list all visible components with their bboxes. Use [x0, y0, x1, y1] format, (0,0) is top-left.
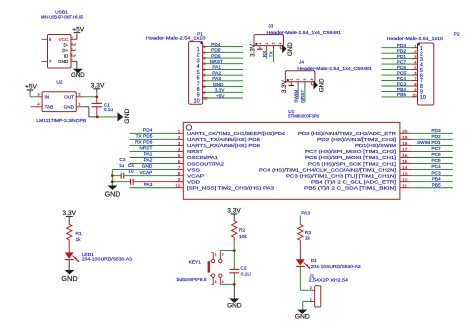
- svg-text:2: 2: [414, 50, 416, 54]
- svg-text:VCC: VCC: [59, 37, 69, 42]
- svg-text:PC5: PC5: [431, 158, 441, 164]
- header P1 value: [146, 35, 206, 41]
- C1 labels: [104, 102, 114, 113]
- wire J4 pin2: [297, 86, 299, 99]
- svg-text:UART1_RX/AIN6/(HS) PD6: UART1_RX/AIN6/(HS) PD6: [187, 143, 260, 149]
- LED D1: [296, 259, 310, 268]
- svg-text:204-10SURD/S530-A3: 204-10SURD/S530-A3: [311, 264, 361, 270]
- svg-text:3: 3: [37, 92, 39, 97]
- svg-text:1: 1: [203, 45, 205, 49]
- svg-text:4: 4: [222, 280, 224, 284]
- net label PA3 (top): [301, 210, 310, 216]
- J3 pin 4 stub: [280, 46, 282, 49]
- svg-text:1: 1: [289, 78, 293, 80]
- header P2 reference: [454, 32, 460, 38]
- svg-text:4: 4: [203, 62, 205, 66]
- svg-text:R1: R1: [76, 231, 82, 237]
- wire U2 GND to rail: [83, 107, 97, 117]
- LED LED1: [65, 252, 79, 261]
- svg-text:15: 15: [402, 159, 408, 164]
- svg-text:C4: C4: [128, 163, 134, 169]
- svg-text:PC6 (HS)/SPI_MOSI [TIM1_CH1]: PC6 (HS)/SPI_MOSI [TIM1_CH1]: [305, 155, 397, 161]
- svg-text:3: 3: [414, 55, 416, 59]
- svg-text:C2: C2: [240, 266, 246, 272]
- svg-text:PB5: PB5: [397, 92, 406, 98]
- svg-text:GND: GND: [61, 274, 77, 283]
- svg-text:[SPI_NSS] TIM2_CH3/(HS) PA3: [SPI_NSS] TIM2_CH3/(HS) PA3: [187, 185, 274, 191]
- svg-text:1: 1: [310, 298, 312, 302]
- svg-text:PA3: PA3: [212, 76, 221, 82]
- header P2 body: [418, 43, 434, 105]
- svg-text:9: 9: [203, 91, 205, 95]
- svg-text:U2: U2: [56, 80, 62, 86]
- power flag 3.3V (J3): [249, 43, 262, 57]
- mcu U1 body: [183, 122, 400, 199]
- svg-text:7: 7: [414, 77, 416, 81]
- svg-text:3.3V: 3.3V: [227, 208, 241, 215]
- svg-text:GND: GND: [58, 59, 69, 64]
- junction C2 bottom: [233, 283, 236, 286]
- junction node 3.3V: [95, 95, 98, 98]
- svg-text:J3: J3: [268, 23, 273, 29]
- capacitor C4: [112, 179, 183, 185]
- U2 pin 4 (TAB) stub: [31, 102, 42, 107]
- U2 pin 3 stub: [36, 92, 42, 97]
- svg-text:18: 18: [402, 141, 408, 146]
- svg-text:Header-Male-2.54_1x10: Header-Male-2.54_1x10: [146, 35, 206, 41]
- J4 pin 3 stub: [304, 82, 306, 86]
- U2 pin 2 stub: [76, 92, 83, 97]
- svg-text:20: 20: [402, 129, 408, 134]
- J1 pin 1 stub: [310, 298, 315, 302]
- svg-text:PC3 (HS)/TIM1_CH3 [TLI] [TIM1_: PC3 (HS)/TIM1_CH3 [TLI] [TIM1_CH1N]: [286, 173, 397, 179]
- connector J1 body: [315, 286, 321, 307]
- svg-text:R2: R2: [239, 228, 245, 234]
- svg-text:SWIM: SWIM: [293, 90, 299, 103]
- header J3 body: [254, 35, 284, 46]
- wire R2 to node: [233, 237, 235, 250]
- ground GND (LED1): [61, 270, 77, 283]
- svg-text:3.3V: 3.3V: [91, 82, 105, 89]
- svg-text:PD4: PD4: [143, 127, 153, 133]
- connector USB1 body: [48, 35, 72, 69]
- wire PA3 to R3: [299, 215, 301, 224]
- wire VCC to +5V: [76, 34, 78, 39]
- J3 pin 1 marker: [255, 43, 257, 45]
- U1 right net labels: [417, 128, 441, 188]
- C2 labels: [240, 266, 251, 278]
- svg-text:1: 1: [215, 252, 217, 256]
- net label GND (VSS): [142, 164, 153, 170]
- header J4 body: [285, 71, 315, 82]
- ground GND (C1, right-pointing): [118, 109, 132, 124]
- svg-text:14: 14: [402, 165, 408, 170]
- C4 labels: [128, 163, 134, 175]
- U1 left wires: [130, 133, 176, 187]
- svg-text:5: 5: [414, 66, 416, 70]
- P1 pin stubs: [203, 45, 208, 100]
- svg-text:1u: 1u: [128, 169, 134, 175]
- header J4 reference: [299, 59, 304, 65]
- svg-text:PA1: PA1: [144, 152, 153, 158]
- svg-text:OSCIN/PA1: OSCIN/PA1: [187, 155, 218, 161]
- svg-text:3.3V: 3.3V: [281, 79, 288, 93]
- svg-text:1: 1: [258, 42, 262, 44]
- svg-text:0.1U: 0.1U: [241, 272, 252, 278]
- svg-text:MIN-USB-5P-SMT-H6.65: MIN-USB-5P-SMT-H6.65: [41, 15, 83, 21]
- svg-text:PD3: PD3: [431, 128, 441, 134]
- USB1 pin 7 stub: [42, 59, 53, 64]
- svg-text:2.54X2P XH2.54: 2.54X2P XH2.54: [309, 278, 349, 284]
- mcu U1 reference: [288, 109, 294, 115]
- svg-text:PA2: PA2: [212, 70, 221, 76]
- svg-text:D1: D1: [311, 258, 317, 264]
- header J3 reference: [268, 23, 273, 29]
- svg-text:4: 4: [414, 61, 416, 65]
- wire J1 pin 1 to GND: [303, 302, 310, 310]
- svg-text:PD3: PD3: [397, 43, 407, 49]
- regulator U2 value: [36, 118, 86, 124]
- svg-text:10: 10: [420, 95, 426, 101]
- connector USB1 reference labels: [41, 10, 83, 21]
- svg-text:PC4 (HS)/TIM1_CH4/CLK_CCO/AIN2: PC4 (HS)/TIM1_CH4/CLK_CCO/AIN2/[TIM1_CH2…: [259, 167, 397, 173]
- svg-text:GND: GND: [71, 72, 85, 79]
- svg-text:19: 19: [402, 135, 408, 140]
- J4 pin 2 stub: [297, 82, 299, 86]
- wire R1 to LED1: [68, 240, 70, 253]
- R1 labels: [76, 231, 82, 243]
- KEY1 reference: [189, 260, 202, 266]
- svg-text:1: 1: [78, 102, 80, 107]
- wire R3 to D1: [299, 240, 301, 259]
- svg-text:PA2: PA2: [144, 158, 153, 164]
- J1 pin 2 stub: [310, 286, 315, 290]
- U1 left net labels: [135, 127, 153, 187]
- svg-text:NRST: NRST: [210, 59, 223, 65]
- svg-text:GND: GND: [64, 105, 75, 110]
- P2 inner pin numbers: [420, 46, 426, 101]
- svg-text:10k: 10k: [239, 234, 247, 240]
- P1 pin 1 marker: [201, 42, 203, 44]
- R2 labels: [239, 228, 247, 240]
- svg-text:PB4 (T)/I 2 C_SCL [ADC_ETR]: PB4 (T)/I 2 C_SCL [ADC_ETR]: [311, 179, 397, 185]
- svg-text:SWIM PD1: SWIM PD1: [417, 140, 441, 146]
- svg-text:GND: GND: [295, 314, 310, 321]
- J3 pin 1 stub to 3.3V: [259, 46, 261, 49]
- svg-text:PC6: PC6: [397, 65, 407, 71]
- U1 right pin stubs and numbers: [400, 129, 412, 188]
- svg-text:8: 8: [414, 83, 416, 87]
- svg-text:NRST: NRST: [187, 149, 203, 155]
- svg-text:PD1(HS)/SWIM: PD1(HS)/SWIM: [355, 143, 396, 149]
- svg-text:D-: D-: [63, 43, 68, 48]
- ground GND (rail): [105, 186, 121, 199]
- svg-text:GND: GND: [287, 42, 294, 56]
- J4 pin 4 stub: [312, 82, 314, 85]
- P1 wires: [207, 47, 243, 98]
- svg-text:PA1: PA1: [212, 65, 221, 71]
- svg-text:PD6: PD6: [211, 53, 221, 59]
- svg-text:PA3: PA3: [144, 182, 153, 188]
- J4 pin 1 stub to 3.3V: [290, 82, 292, 85]
- svg-text:RX: RX: [262, 50, 268, 57]
- net label VCAP: [139, 170, 152, 176]
- svg-text:12: 12: [402, 177, 408, 182]
- power flag +5V (U2): [25, 84, 38, 93]
- svg-text:PB4: PB4: [397, 87, 406, 93]
- svg-text:10: 10: [175, 183, 180, 188]
- resistor R2: [232, 221, 237, 238]
- svg-text:UART1_TX/AIN5/(HS) PD5: UART1_TX/AIN5/(HS) PD5: [187, 137, 260, 143]
- svg-text:KEY1: KEY1: [189, 260, 202, 266]
- svg-text:D+: D+: [62, 48, 68, 53]
- U1 right pin names: [259, 131, 397, 191]
- svg-text:4: 4: [310, 78, 314, 80]
- svg-text:8: 8: [203, 85, 205, 89]
- svg-text:VSS: VSS: [187, 167, 201, 173]
- svg-text:6: 6: [414, 72, 416, 76]
- J3 pin 2 stub: [266, 46, 268, 50]
- wire D1 to J1 pin 2: [300, 267, 309, 290]
- U1 right wires: [412, 133, 453, 187]
- svg-text:R3: R3: [305, 230, 311, 236]
- svg-text:GND: GND: [124, 109, 131, 124]
- capacitor C3: [112, 173, 175, 179]
- regulator U2 body: [42, 92, 76, 112]
- wire 3.3V flag to node: [96, 92, 98, 97]
- svg-text:3: 3: [203, 57, 205, 61]
- USB1 pin 6 stub: [42, 37, 53, 42]
- header P1 body: [189, 42, 203, 105]
- P1 net labels: [210, 42, 225, 99]
- switch KEY1: [208, 252, 224, 284]
- svg-text:10: 10: [412, 94, 416, 98]
- svg-text:3: 3: [272, 42, 276, 44]
- U2 pin 1 stub: [76, 102, 83, 107]
- svg-text:16: 16: [402, 153, 408, 158]
- svg-text:PB5: PB5: [432, 182, 441, 188]
- power flag 3.3V (R1): [63, 210, 77, 224]
- svg-text:3.3V: 3.3V: [249, 43, 256, 57]
- header J3 value: [267, 30, 342, 36]
- junction R2/KEY1/C2: [233, 249, 236, 252]
- header P1 reference: [197, 31, 203, 37]
- regulator U2 reference: [56, 80, 62, 86]
- USB1 pin names: [58, 37, 69, 64]
- net label RX (J3): [262, 50, 268, 57]
- capacitor C1: [92, 97, 102, 117]
- junction C4 rail: [111, 180, 114, 183]
- svg-text:PC4: PC4: [397, 76, 407, 82]
- svg-text:IN: IN: [45, 95, 50, 100]
- svg-text:PC7: PC7: [397, 59, 407, 65]
- wire to GND (KEY1): [233, 284, 235, 298]
- svg-text:TX PD5: TX PD5: [136, 133, 153, 139]
- svg-text:204-10SURD/S530-A3: 204-10SURD/S530-A3: [82, 257, 132, 263]
- svg-text:+5V: +5V: [216, 93, 225, 99]
- wire VSS to ground rail: [112, 170, 175, 186]
- svg-text:PD2: PD2: [431, 134, 441, 140]
- svg-text:PC5: PC5: [397, 70, 407, 76]
- LED1 labels: [82, 252, 132, 263]
- svg-text:OUT: OUT: [64, 95, 74, 100]
- USB1 pin 1 (VCC) stub: [70, 37, 77, 40]
- svg-text:9: 9: [414, 88, 416, 92]
- wire KEY1 bottom: [220, 283, 234, 285]
- net label TX (J3): [269, 50, 275, 57]
- svg-text:PD2 (HS)/AIN3/[TIM2_CH3]: PD2 (HS)/AIN3/[TIM2_CH3]: [317, 137, 397, 143]
- junction C3 rail: [111, 174, 114, 177]
- svg-text:1u: 1u: [119, 163, 125, 169]
- power flag 3.3V (U2 out): [91, 82, 105, 91]
- svg-text:13: 13: [402, 171, 408, 176]
- svg-text:6: 6: [203, 74, 205, 78]
- svg-text:GND: GND: [213, 82, 224, 88]
- D1 labels: [311, 258, 361, 270]
- svg-text:USB1: USB1: [55, 10, 68, 16]
- wire J3 pin3: [273, 50, 275, 63]
- connector J1 reference: [309, 273, 314, 279]
- svg-text:VDD: VDD: [187, 179, 201, 185]
- ground GND (KEY1): [227, 299, 242, 310]
- J4 inner pin numbers: [289, 78, 313, 80]
- wire LED1 to GND: [68, 260, 70, 270]
- svg-text:NRST: NRST: [300, 90, 306, 103]
- svg-text:UART1_CK/TIM2_CH1/BEEP/(HS)PD4: UART1_CK/TIM2_CH1/BEEP/(HS)PD4: [187, 131, 285, 137]
- capacitor C2: [230, 251, 240, 285]
- svg-text:5: 5: [203, 68, 205, 72]
- U2 pin names: [45, 95, 75, 110]
- svg-text:1: 1: [414, 44, 416, 48]
- J3 pin 3 stub: [273, 46, 275, 50]
- P1 inner pin numbers: [194, 47, 200, 104]
- svg-text:TAB: TAB: [45, 105, 54, 110]
- J4 pin 1 marker: [287, 79, 289, 81]
- svg-text:2: 2: [78, 92, 80, 97]
- svg-text:3: 3: [215, 280, 217, 284]
- svg-text:STM8S003F3P6: STM8S003F3P6: [288, 114, 319, 120]
- wire J4 pin3: [304, 86, 306, 103]
- svg-text:+5V: +5V: [25, 84, 38, 91]
- wire U2 OUT to 3.3V node: [83, 96, 96, 98]
- svg-text:PD1: PD1: [397, 54, 407, 60]
- svg-text:PC5 (HS)/SPI_SCK [TIM2_CH1]: PC5 (HS)/SPI_SCK [TIM2_CH1]: [308, 161, 397, 167]
- svg-text:PC3: PC3: [431, 170, 441, 176]
- KEY1 value: [177, 277, 207, 283]
- resistor R3: [298, 225, 303, 241]
- header J4 value: [297, 66, 372, 72]
- wire +5V to U2 IN: [30, 93, 36, 97]
- svg-text:1k: 1k: [76, 237, 82, 243]
- svg-text:PB4: PB4: [432, 176, 441, 182]
- svg-text:TX: TX: [269, 50, 275, 57]
- P2 pin 1 marker: [418, 43, 420, 45]
- R3 labels: [305, 230, 311, 242]
- svg-text:3: 3: [303, 78, 307, 80]
- svg-text:RX PD6: RX PD6: [135, 140, 153, 146]
- power flag 3.3V (J4): [281, 79, 294, 93]
- svg-text:GND: GND: [227, 302, 242, 309]
- svg-text:NRST: NRST: [139, 146, 152, 152]
- U1 left pin names: [187, 131, 285, 191]
- U1 orientation circle: [186, 125, 191, 130]
- svg-text:7: 7: [203, 79, 205, 83]
- header P2 value: [387, 36, 444, 42]
- svg-text:2: 2: [310, 286, 312, 290]
- svg-text:2: 2: [222, 252, 224, 256]
- power flag +5V (USB1): [72, 26, 85, 33]
- ground GND (J3, right-pointing): [282, 42, 294, 56]
- svg-text:GND: GND: [142, 164, 153, 170]
- svg-text:VCAP: VCAP: [187, 173, 204, 179]
- svg-text:2: 2: [203, 51, 205, 55]
- svg-text:PA3: PA3: [301, 210, 310, 216]
- wire J3 pin2: [266, 50, 268, 59]
- U1 left pin stubs and numbers: [175, 129, 183, 188]
- svg-text:LM1117IMP-3.3/NOPB: LM1117IMP-3.3/NOPB: [36, 118, 86, 124]
- svg-text:PD2: PD2: [397, 48, 407, 54]
- svg-text:OSCOUT/PA2: OSCOUT/PA2: [187, 161, 224, 167]
- C3 labels: [119, 157, 126, 169]
- svg-text:VCAP: VCAP: [139, 170, 152, 176]
- svg-text:1k: 1k: [305, 236, 311, 242]
- svg-text:ID: ID: [64, 54, 69, 59]
- svg-text:button6*6*8.5: button6*6*8.5: [177, 277, 207, 283]
- svg-text:3.3V: 3.3V: [215, 88, 226, 94]
- P2 wires: [381, 48, 411, 97]
- wire to GND flag: [97, 116, 117, 118]
- J3 inner pin numbers: [258, 42, 282, 44]
- ground GND (J1): [295, 310, 310, 321]
- svg-text:PB5 (T)/I 2 C_SDA [TIM1_BKIN]: PB5 (T)/I 2 C_SDA [TIM1_BKIN]: [304, 185, 397, 191]
- svg-text:PD4: PD4: [211, 42, 221, 48]
- junction C1 bottom: [96, 116, 99, 119]
- svg-text:10: 10: [194, 98, 200, 104]
- svg-text:J4: J4: [299, 59, 304, 65]
- svg-text:2: 2: [265, 42, 269, 44]
- ground GND (J4, right-pointing): [314, 78, 326, 92]
- svg-text:PC7 (HS)/SPI_MISO [TIM1_CH2]: PC7 (HS)/SPI_MISO [TIM1_CH2]: [305, 149, 397, 155]
- USB1 pins 2-4 (D- D+ ID) stubs: [70, 42, 76, 56]
- resistor R1: [67, 224, 72, 240]
- svg-text:C3: C3: [119, 157, 125, 163]
- svg-text:GND: GND: [318, 78, 325, 92]
- svg-text:Header-Male-2.54_1x10: Header-Male-2.54_1x10: [387, 36, 444, 42]
- svg-text:0.1u: 0.1u: [104, 107, 114, 113]
- svg-text:PC7: PC7: [431, 146, 441, 152]
- svg-text:PC6: PC6: [431, 152, 441, 158]
- svg-text:PC3: PC3: [397, 81, 407, 87]
- svg-text:10: 10: [203, 96, 207, 100]
- net label NRST (J4): [300, 90, 306, 103]
- P2 net labels: [397, 43, 407, 98]
- ground GND (USB1): [71, 69, 85, 79]
- mcu U1 value: [288, 114, 319, 120]
- svg-text:PD5: PD5: [211, 48, 221, 54]
- svg-text:4: 4: [278, 42, 282, 44]
- wire USB1 GND down: [76, 61, 78, 68]
- net label SWIM (J4): [293, 90, 299, 103]
- svg-text:2: 2: [296, 78, 300, 80]
- P2 pin stubs: [411, 44, 417, 97]
- svg-text:GND: GND: [105, 191, 121, 198]
- power flag 3.3V (R2): [227, 208, 241, 221]
- svg-text:17: 17: [402, 147, 408, 152]
- wire node to KEY1 top: [220, 251, 234, 253]
- svg-text:PD3 (HS)/AIN4/TIM2_CH2/ADC_ETR: PD3 (HS)/AIN4/TIM2_CH2/ADC_ETR: [298, 131, 397, 137]
- USB1 pin 5 (GND) stub: [70, 59, 77, 62]
- svg-text:3.3V: 3.3V: [63, 210, 77, 217]
